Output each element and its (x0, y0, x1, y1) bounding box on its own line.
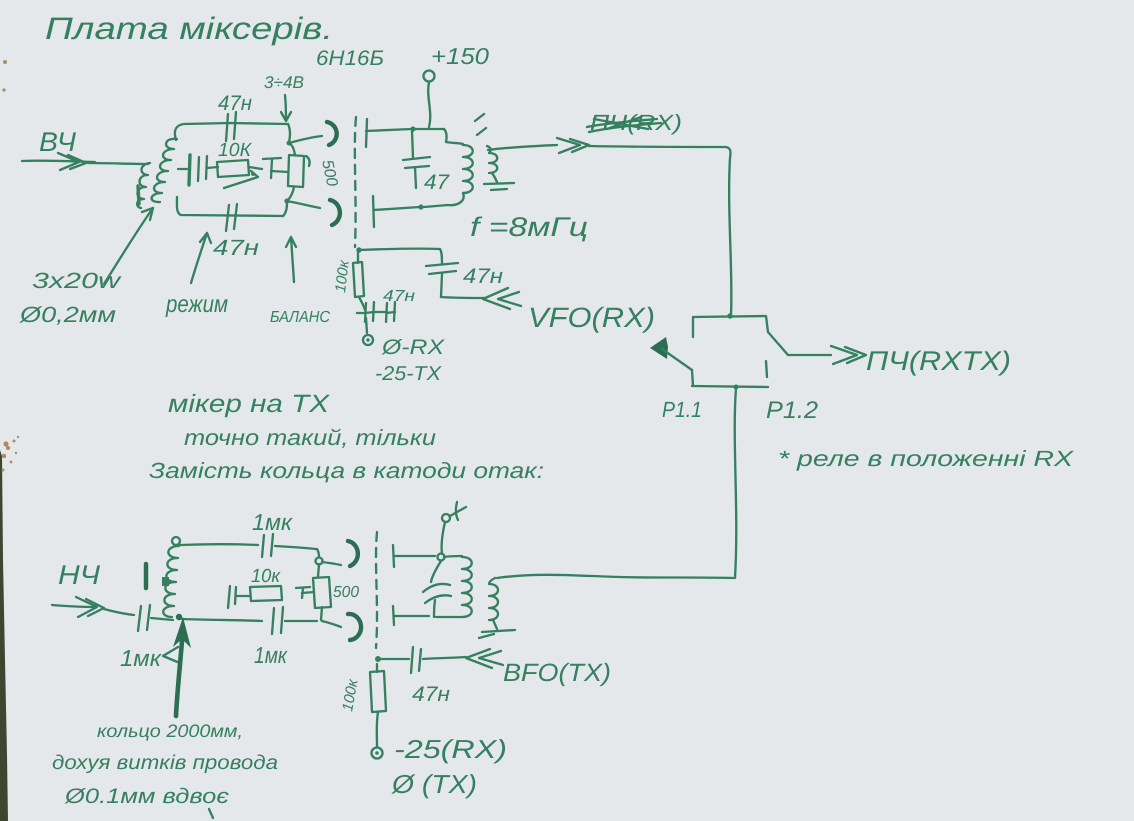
svg-text:НЧ: НЧ (58, 560, 101, 590)
svg-text:-25-ТХ: -25-ТХ (375, 363, 442, 385)
transformer T1 primary winding (left small coil) (137, 163, 150, 208)
tube V1b cathode (bottom crescent) (330, 200, 340, 225)
capacitor plates in grid chain (198, 157, 199, 181)
svg-text:6Н16Б: 6Н16Б (316, 47, 384, 70)
capacitor C9 47н plates (411, 647, 413, 673)
relay P1.2 blade (768, 332, 788, 355)
arrow from БАЛАНС up (286, 237, 296, 282)
wire: anode lead top (bottom mixer) (394, 555, 435, 557)
supply terminal +150 (424, 71, 435, 82)
svg-text:* реле в положенні RX: * реле в положенні RX (778, 446, 1075, 471)
svg-text:режим: режим (165, 291, 228, 318)
T3 bottom junction blob (176, 614, 182, 620)
transformer T4 primary lead (444, 556, 462, 557)
trimmer arrow under R1 (224, 171, 258, 188)
ground of T4 secondary (479, 620, 515, 638)
relay P1.1 blade (662, 349, 692, 370)
core marks of T2 (475, 114, 486, 135)
relay P1.2 lower fixed contact (766, 361, 767, 377)
grid tap T bar (bottom) (296, 587, 310, 598)
node junction dot plate2 (418, 204, 423, 209)
relay contact P1.1 armature arrowhead (650, 337, 668, 359)
wire: anode lead top triode (366, 129, 444, 131)
svg-text:500: 500 (333, 584, 359, 601)
terminal TP1 bias (363, 335, 373, 345)
svg-text:Р1.1: Р1.1 (662, 397, 702, 422)
transformer T1 secondary winding (main vertical coil) (152, 139, 177, 202)
C8 stem down (434, 600, 435, 617)
wire: anode lead bottom triode (374, 207, 420, 210)
wire: bottom rail bottom mixer (182, 619, 262, 621)
scan edge dark strip (left) (0, 450, 8, 821)
pot R2 top lead (290, 144, 295, 155)
transformer T4 secondary coil (489, 584, 498, 620)
transformer T3 winding (163, 546, 179, 617)
grid tap T bar (263, 158, 281, 159)
resistor R6 100к body (370, 671, 386, 712)
R6 bottom stem (377, 712, 378, 747)
wire: output of bottom mixer to relay (497, 575, 733, 578)
tube V1a grid bar (366, 119, 367, 147)
svg-text:f =8мГц: f =8мГц (470, 212, 588, 242)
transformer T2 secondary coil (487, 146, 497, 173)
arrowhead on НЧ input (76, 597, 104, 617)
big arrowhead (173, 617, 191, 648)
wire: НЧ input lead (52, 605, 95, 607)
wire top rail continues (275, 546, 316, 549)
svg-text:1мк: 1мк (254, 642, 288, 668)
tube V2b cathode (bottom crescent) (348, 614, 361, 640)
svg-text:47н: 47н (218, 92, 252, 115)
supply mark +т (450, 502, 466, 520)
wire: VFO branch horizontal (359, 249, 442, 264)
wire: top rail bottom mixer (180, 543, 258, 546)
T2 primary bottom hook (424, 193, 464, 207)
node junction dot top-right (287, 141, 292, 146)
supply terminal (bottom) (442, 514, 450, 522)
svg-text:Ø (ТХ): Ø (ТХ) (391, 769, 477, 799)
capacitor C7 1мк plates (bottom) (272, 608, 274, 634)
node dot on R1 lead (251, 172, 255, 176)
big arrow to T3 core (176, 641, 182, 716)
svg-text:1мк: 1мк (252, 509, 293, 535)
wire: ВЧ input lead (22, 161, 95, 162)
wire: anode lead bottom (bottom mixer) (394, 615, 429, 617)
tube V2a grid bar (393, 545, 394, 567)
node junction dot relay bottom (734, 385, 739, 390)
arrow from режим up (191, 233, 211, 283)
arrowhead VFO (points left) (483, 288, 521, 309)
arrowhead BFO (points left) (466, 649, 503, 668)
svg-text:47н: 47н (463, 265, 504, 288)
ground bar left of T3 (144, 564, 149, 588)
tube V2 envelope (dashed) (376, 532, 377, 648)
strike-through lines (587, 117, 661, 132)
capacitor C1 47н (top) plates (226, 114, 228, 141)
svg-text:VFO(RX): VFO(RX) (528, 302, 655, 333)
wire: IF output continues to relay (589, 146, 731, 315)
wire: bottom-right corner up to cathode node (283, 201, 287, 216)
resistor R3 100к stem (357, 250, 359, 263)
terminal TP3 (372, 748, 383, 759)
C4 stem down (441, 274, 442, 297)
svg-text:Ø-RX: Ø-RX (381, 336, 445, 359)
svg-text:ПЧ(RX): ПЧ(RX) (590, 110, 682, 135)
wire to input cap (104, 609, 134, 615)
arrowhead IF output RXTX (831, 346, 866, 364)
svg-text:3x20w: 3x20w (32, 268, 123, 293)
arrowhead on ВЧ input (58, 153, 79, 170)
node junction dot anode (410, 126, 415, 131)
capacitor C8 plates (slanted) (423, 584, 450, 592)
svg-text:Замість кольца в катоди отак:: Замість кольца в катоди отак: (149, 458, 544, 483)
T4 primary bottom hook (436, 616, 462, 618)
wire: top rail of mixer ring (175, 123, 288, 140)
node junction dot VFO branch (356, 247, 361, 252)
R3 bottom stem (359, 297, 365, 310)
wire C5 to transformer T3 (151, 618, 173, 620)
svg-text:БАЛАНС: БАЛАНС (270, 309, 330, 326)
transformer T4 primary coil (462, 557, 472, 617)
wire tap to pot R5 (302, 592, 314, 593)
wire: relay bottom bracket (692, 386, 768, 387)
svg-text:47н: 47н (412, 683, 450, 706)
wire to bias terminal (366, 318, 367, 333)
resistor R6 100к stem (376, 664, 378, 672)
svg-text:Плата міксерів.: Плата міксерів. (45, 11, 333, 46)
wire to bottom cathode (287, 201, 320, 208)
pot bracket mark (306, 156, 310, 166)
svg-text:BFO(ТХ): BFO(ТХ) (503, 659, 611, 687)
node ring junction (316, 558, 323, 565)
C3 stem down (415, 167, 416, 188)
arrowhead on IF output (557, 138, 589, 153)
wire to resistor R1 (207, 167, 218, 168)
wire +150 down (428, 82, 430, 127)
tube V2a cathode (top crescent) (348, 541, 358, 566)
resistor R1 10К body (217, 160, 249, 177)
svg-text:кольцо 2000мм,: кольцо 2000мм, (97, 721, 243, 741)
capacitor C3 47 plates (403, 157, 430, 160)
node junction dot bottom-right (284, 198, 289, 203)
svg-text:1мк: 1мк (120, 645, 162, 671)
wire ring down to cap C8 (431, 561, 441, 582)
svg-text:3÷4В: 3÷4В (264, 73, 304, 92)
ground of T2 secondary (484, 173, 514, 190)
svg-text:мікер на ТХ: мікер на ТХ (168, 390, 331, 418)
pot R5 bottom link (321, 607, 322, 620)
wire: top-right corner down to cathode node (288, 124, 290, 143)
transformer T3 top terminal (172, 537, 180, 545)
svg-text:Ø0,2мм: Ø0,2мм (19, 302, 116, 327)
wire terminal down to ring (442, 522, 445, 554)
wire R1 to tap (249, 167, 262, 169)
scan specks near left edge (2, 60, 20, 472)
wire C9 to BFO arrow (423, 657, 466, 659)
arrow from 3x20w to transformer (104, 208, 153, 284)
svg-text:10к: 10к (251, 566, 281, 587)
wire: bottom rail of mixer ring (177, 197, 283, 216)
wire: relay top bracket (693, 316, 768, 337)
capacitor C2 47н (bottom) plates (226, 205, 229, 231)
series capacitors (НН shape) (357, 302, 395, 322)
potentiometer R5 500 body (313, 577, 331, 608)
potentiometer R2 500 body (288, 155, 304, 187)
svg-text:Ø0.1мм вдвоє: Ø0.1мм вдвоє (64, 785, 230, 808)
stray mark bottom edge (209, 809, 213, 818)
svg-text:+150: +150 (431, 43, 489, 69)
svg-text:47: 47 (424, 171, 450, 194)
arrowhead after 1мк label (163, 647, 180, 663)
wire C4 to VFO arrow (441, 297, 485, 298)
transformer T1 primary end bar (138, 186, 139, 204)
pot R5 500 link from ring (318, 564, 319, 577)
capacitor C6 1мк plates (top) (262, 535, 264, 557)
capacitor plates grid chain (bottom mixer) (228, 586, 230, 608)
wire: P1.2 output (788, 354, 831, 356)
wire to top cathode (289, 136, 322, 143)
wire from arrow to transformer T1 (88, 163, 148, 164)
tube V2b grid bar (393, 606, 394, 625)
wire to bottom cathode (322, 621, 341, 627)
svg-text:-25(RX): -25(RX) (394, 734, 507, 764)
C3 stem up (412, 131, 413, 158)
capacitor C5 1мк plates (138, 606, 141, 631)
node ring junction anode (438, 554, 445, 561)
wire: winding center tap (178, 168, 187, 170)
transformer T2 primary corner lead (444, 129, 463, 144)
wire tap to potentiometer (271, 171, 288, 172)
transformer T4 secondary hook (489, 578, 495, 584)
tube V1b grid bar (373, 196, 374, 227)
wire BFO branch (381, 658, 409, 660)
svg-text:10К: 10К (218, 140, 253, 161)
resistor R3 100к body (353, 262, 364, 297)
node junction dot relay top (727, 313, 732, 318)
svg-text:Р1.2: Р1.2 (766, 397, 818, 424)
tube V1 envelope (dashed) (355, 117, 356, 247)
node junction dot BFO (375, 656, 381, 662)
wire to resistor R4 (237, 595, 250, 597)
svg-text:дохуя витків провода: дохуя витків провода (52, 752, 278, 774)
wire: IF output to the right (488, 145, 557, 150)
svg-text:ПЧ(RXТХ): ПЧ(RXТХ) (866, 346, 1011, 376)
transformer T2 primary coil (463, 145, 473, 193)
wire bottom rail continues (285, 620, 317, 622)
svg-text:точно такий, тільки: точно такий, тільки (184, 425, 436, 450)
arrow from 3÷4В down to rail (281, 95, 291, 121)
resistor R4 10к body (250, 586, 282, 601)
capacitor C4 47н plates (426, 263, 458, 266)
wire ring to top cathode (322, 562, 341, 565)
wire: long vertical from relay to bottom mixer (735, 388, 737, 578)
small square pad (162, 577, 169, 586)
grid coupling bar (189, 155, 190, 185)
pot R2 bottom lead (288, 187, 294, 200)
relay P1.1 fixed contact (692, 370, 693, 386)
svg-text:47н: 47н (213, 235, 259, 260)
tube V1a cathode (top crescent) (327, 122, 337, 145)
